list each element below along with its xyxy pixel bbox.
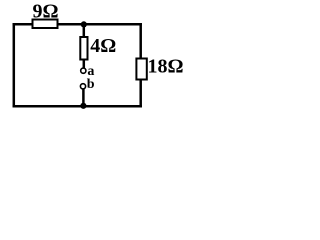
wire: right side upper segment xyxy=(139,23,142,60)
wire: middle branch lower (terminal b to bottom wire) xyxy=(82,86,85,106)
svg-text:18Ω: 18Ω xyxy=(148,55,184,77)
resistor R2 (4 ohm) body xyxy=(80,37,87,60)
resistor R3 (18 ohm) body xyxy=(136,59,146,80)
svg-text:b: b xyxy=(87,77,95,92)
node: top junction xyxy=(81,21,87,27)
wire: top side xyxy=(13,23,142,26)
wire: middle branch upper (junction to terminal a) xyxy=(83,24,86,70)
svg-text:4Ω: 4Ω xyxy=(90,35,116,57)
wire: bottom side xyxy=(13,105,142,108)
node: bottom junction xyxy=(80,103,86,109)
terminal b (open circle) xyxy=(80,84,85,89)
wire: right side lower segment xyxy=(139,78,142,107)
resistor R1 (9 ohm) body xyxy=(33,20,58,29)
wire: left side xyxy=(13,23,16,107)
terminal a (open circle) xyxy=(81,68,86,73)
svg-text:9Ω: 9Ω xyxy=(33,0,59,22)
